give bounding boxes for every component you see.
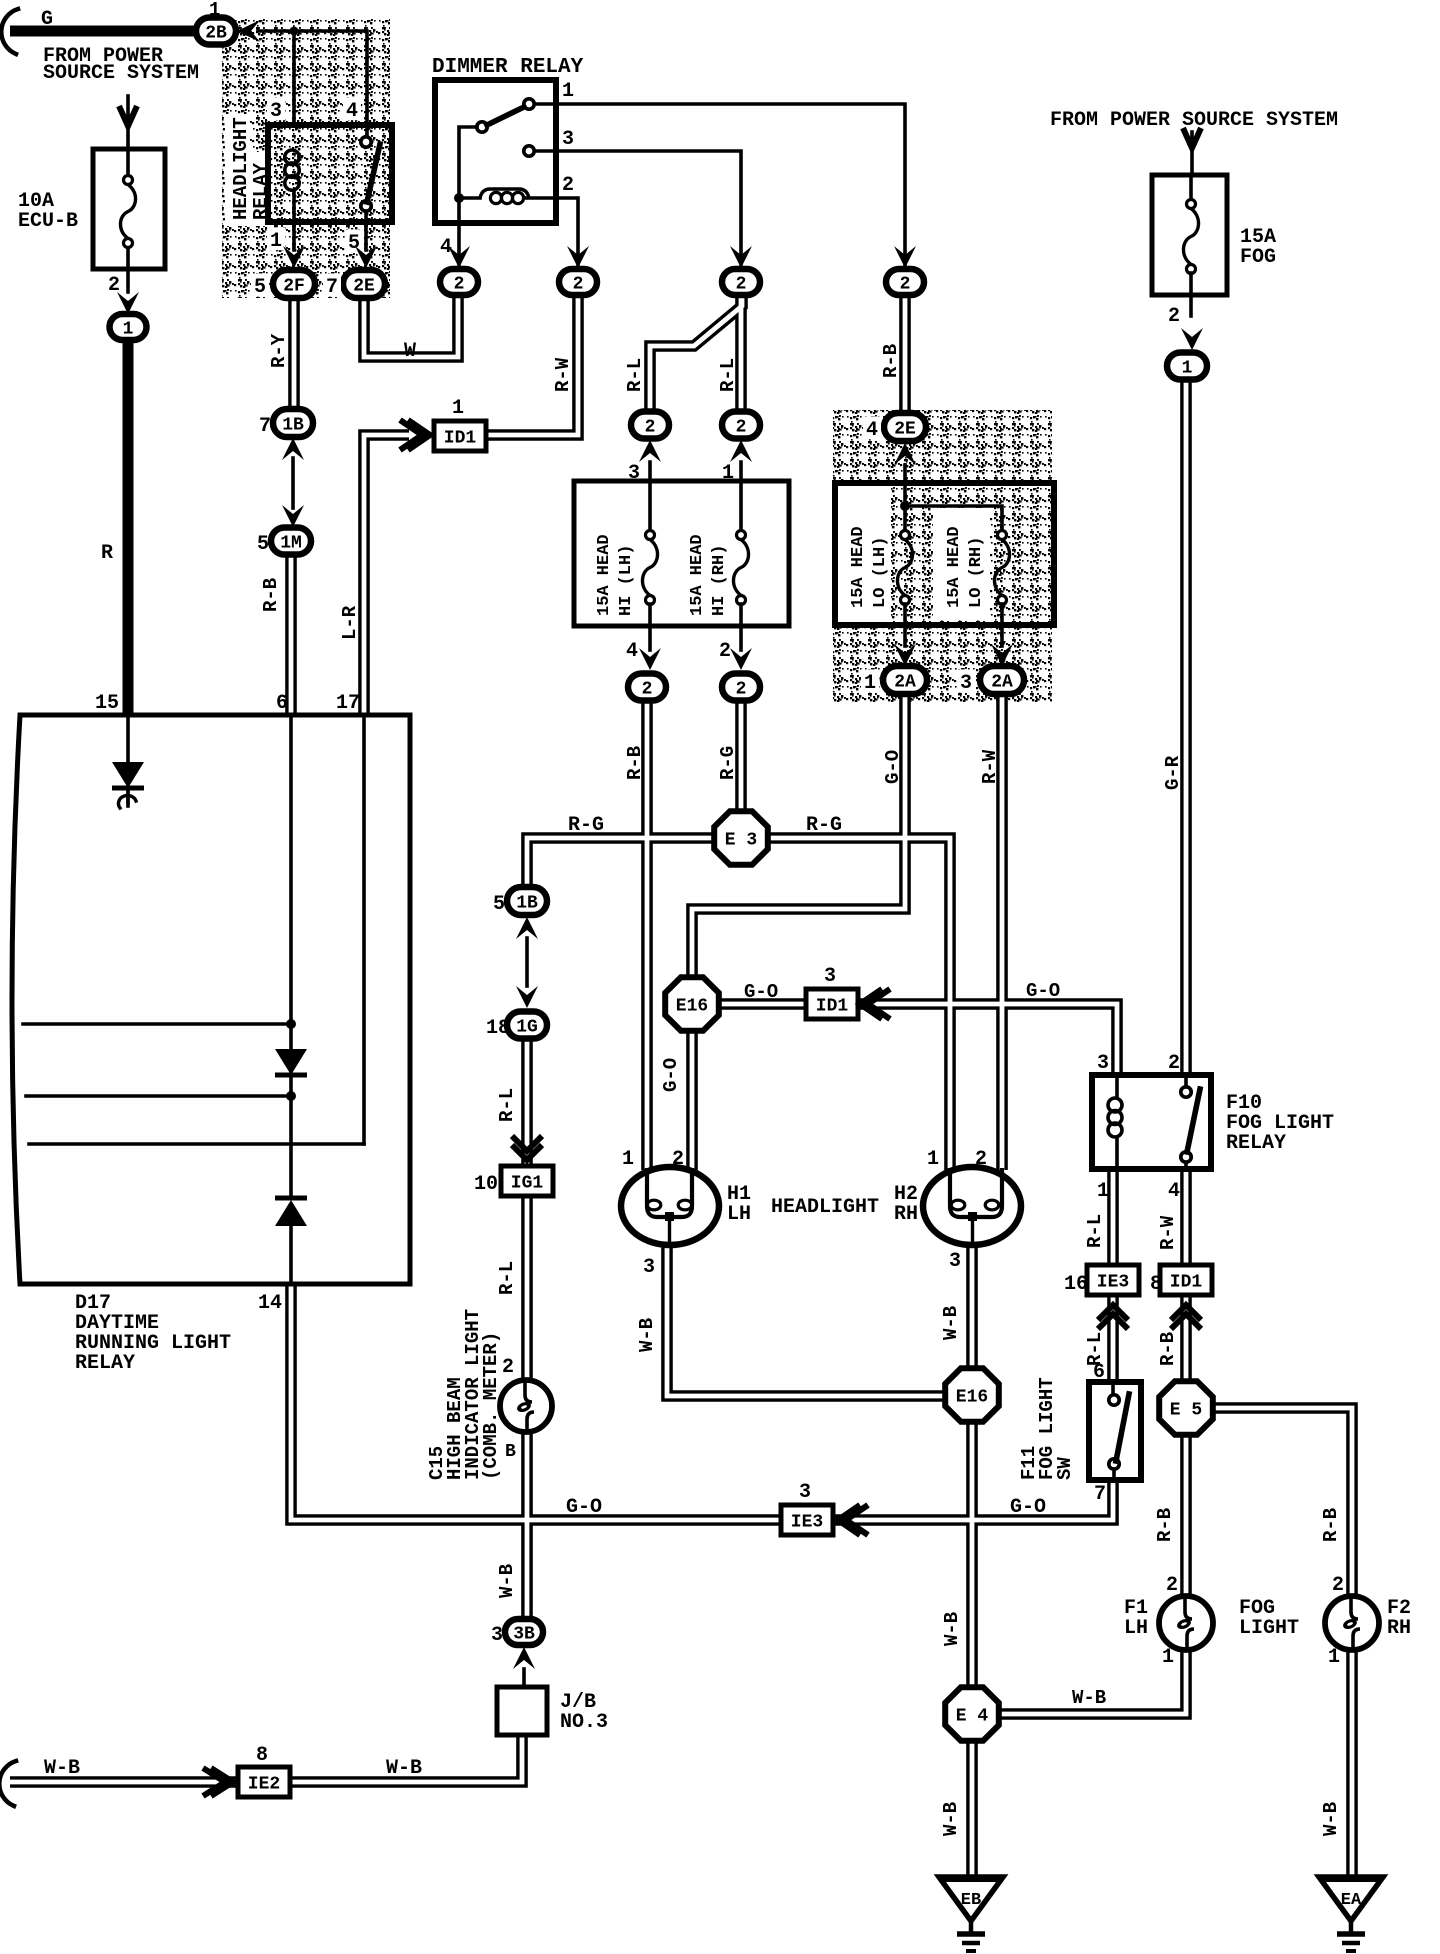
wire 1B to 1G [525,938,529,986]
label 1 at 2A LH [861,669,879,695]
fuse 10A ECU-B element [120,176,135,248]
svg-text:10: 10 [474,1173,498,1196]
wire G-O E16 to H1 pin2 [686,1029,698,1170]
svg-text:W-B: W-B [940,1802,962,1836]
lead into head hi RH fuse [739,462,743,531]
svg-text:W: W [404,340,416,363]
arrow into head hi LH conn [639,440,661,462]
svg-text:ID1: ID1 [816,996,849,1016]
svg-text:1: 1 [622,1148,634,1171]
FOG fuse bottom lead [1189,273,1193,316]
switch F11 fog light switch box [1089,1382,1141,1480]
junction E3 [714,811,768,865]
headlight relay switch blade [367,144,380,202]
arrow into conn 2 (dimmer pin4) [448,246,470,268]
svg-text:3: 3 [1097,1052,1109,1075]
svg-text:18: 18 [486,1017,510,1040]
arrow chevrons into ID1 #1 [400,420,430,450]
svg-text:2: 2 [900,274,911,294]
dimmer pin1 wire to conn [534,104,905,268]
svg-text:5: 5 [254,276,266,299]
arrow into 2A RH [991,644,1013,666]
connector 1 (FOG) [1167,353,1207,380]
junction ID1 #2 [806,989,858,1019]
svg-text:3: 3 [824,965,836,988]
svg-text:EB: EB [961,1891,981,1910]
svg-text:E 5: E 5 [1170,1400,1202,1420]
svg-text:R-L: R-L [496,1261,518,1295]
svg-text:(COMB. METER): (COMB. METER) [480,1332,502,1480]
relay D17 daytime running light relay box [12,715,410,1284]
dimmer contact pin1 [524,99,534,109]
svg-text:15: 15 [95,692,119,715]
svg-text:2A: 2A [894,672,916,692]
svg-text:1B: 1B [282,415,304,435]
coil F10 relay [1108,1098,1122,1137]
junction ID1 #3 [1160,1265,1212,1295]
svg-text:LO (RH): LO (RH) [967,537,986,608]
connector 2 head hi RH top [722,412,760,439]
svg-text:R-B: R-B [624,746,646,780]
diode D17 internal #1 [112,762,144,788]
svg-text:14: 14 [258,1292,282,1315]
wire W-B left feed to IE2 and J/B No.3 [10,1735,522,1782]
arrow chevrons into IE3 #1 [1098,1305,1128,1329]
arrow into conn 2 (dimmer pin1) [894,246,916,268]
fuse ECU-B bottom lead [126,248,130,292]
svg-text:ID1: ID1 [444,428,477,448]
svg-text:5: 5 [257,533,269,556]
label 5 at 2F [251,273,269,299]
wire R-Y 2F to 1B [288,298,300,409]
D17 internal curl [118,790,136,808]
fuse 15A FOG box [1152,175,1227,295]
arrow into conn 1 [117,292,139,314]
svg-text:R-B: R-B [1320,1508,1342,1542]
arrow into conn 2 below LH fuse [639,648,661,670]
wire R thick feed to D17 pin 15 [123,340,134,715]
dimmer pin2 wire to conn [524,198,578,268]
lamp F2 fog RH [1325,1596,1379,1650]
svg-text:8: 8 [1150,1273,1162,1296]
wire G-O ID1 to F10 pin3 [859,1004,1117,1075]
svg-text:R-W: R-W [552,357,574,392]
svg-text:7: 7 [259,415,271,438]
F11 contact top [1109,1395,1119,1405]
junction E16 #1 [665,977,719,1031]
svg-text:DIMMER RELAY: DIMMER RELAY [432,56,584,79]
wire R-B ID1 to E5 [1180,1294,1192,1383]
wire G power feed bus [10,26,216,37]
label 4 at 2E [863,416,881,442]
svg-text:4: 4 [626,640,638,663]
wire R-W dimmer pin2 to ID1 [485,296,578,435]
dimmer internal junction [454,193,464,203]
connector 2 head hi LH bottom [628,674,666,701]
connector 2 head hi LH top [631,412,669,439]
svg-text:2: 2 [454,274,465,294]
wire R-B E5 to F1 pin2 [1180,1434,1192,1597]
connector 1 (ECU-B) [110,314,147,340]
wire W-B C15 bulb to 3B [521,1431,533,1620]
head lo LH fuse top lead [903,506,907,531]
svg-text:3: 3 [960,672,972,695]
D17 pin17 internal lead [362,715,366,1144]
label pin5 headlight relay [345,229,363,255]
junction E4 [945,1687,999,1741]
junction head lo feed [900,501,910,511]
svg-text:4: 4 [866,419,878,442]
svg-text:W-B: W-B [44,1757,80,1780]
headlight relay contact top [361,137,371,147]
white wire cores [10,296,1352,1877]
svg-text:2: 2 [736,274,747,294]
svg-text:2E: 2E [353,276,375,296]
svg-text:2: 2 [502,1356,514,1379]
svg-text:HI (RH): HI (RH) [710,545,729,616]
svg-text:15A HEAD: 15A HEAD [595,534,614,616]
wire R-L IG1 to C15 bulb [521,1195,533,1382]
svg-text:ID1: ID1 [1170,1272,1203,1292]
dimmer switch blade [487,107,524,125]
wire W-B H1 pin3 to E16 [667,1244,947,1396]
arrow open into ECU-B fuse [119,106,137,126]
svg-text:G-O: G-O [566,1496,602,1519]
svg-text:IE3: IE3 [1097,1272,1129,1292]
junction IE3 #2 [781,1505,833,1535]
wire R-L dimmer pin3 conn to head hi LH conn [650,297,742,412]
fuse box 15A HEAD HI [574,481,789,626]
svg-text:4: 4 [1168,1180,1180,1203]
wire G-R fog fuse to F10 pin2 [1180,380,1192,1075]
connector 2A RH [980,666,1024,694]
wire G-O IE3 to F11 pin7 [832,1480,1113,1520]
svg-text:2: 2 [645,417,656,437]
svg-text:R-W: R-W [1157,1215,1179,1250]
wire R-B E5 to F2 pin2 [1211,1408,1352,1597]
arrow chevrons into ID1 #2 [860,989,890,1019]
arrow chevrons into ID1 #3 [1171,1305,1201,1329]
fuse box 15A HEAD LO [835,483,1054,625]
svg-text:E 4: E 4 [956,1706,989,1726]
svg-text:1: 1 [123,319,134,339]
headlamp H1 LH [621,1167,719,1245]
FOG fuse top lead [1189,175,1193,200]
F10 coil leads [1115,1075,1119,1169]
svg-text:R-L: R-L [1084,1214,1106,1248]
wire 2B to headlight relay pins [258,31,367,137]
svg-text:W-B: W-B [636,1318,658,1352]
wire stub curl bottom-left [0,1761,16,1806]
headlight relay pin5 lead [364,211,368,250]
F10 pin2 lead [1184,1075,1188,1169]
D17 internal hline c [29,1142,364,1146]
junction E5 [1159,1381,1213,1435]
label 3 at 2A RH [957,669,975,695]
connector 2 dimmer pin4 [440,269,478,295]
svg-text:2: 2 [736,679,747,699]
svg-text:3: 3 [562,128,574,151]
svg-text:1: 1 [1182,358,1193,378]
svg-text:R-G: R-G [717,746,739,780]
connector 2 dimmer pin2 [559,269,597,295]
svg-text:G-O: G-O [882,750,904,784]
wire L-R D17 pin17 to ID1 [364,435,409,715]
svg-text:LH: LH [727,1203,751,1226]
headlight relay coil bottom lead [292,192,296,250]
svg-text:LH: LH [1124,1617,1148,1640]
label pin3 headlight relay [267,97,285,123]
F11 pin6 lead [1111,1382,1115,1394]
wire G-O 2A LH to E16 [692,694,905,980]
svg-text:W-B: W-B [386,1757,422,1780]
D17 internal junction b [286,1091,296,1101]
F11 switch blade [1116,1394,1129,1461]
wire W-B E4 to ground EB [966,1740,978,1877]
wire W-B E16 to E4 [966,1420,978,1688]
ground EA [1319,1877,1383,1951]
wire stub curl top-left [1,9,18,54]
junction E16 #2 [945,1368,999,1422]
arrow into 2F [283,246,305,268]
wire R-G E3 left to 1B [527,838,715,888]
F10 contact top [1181,1087,1191,1097]
connector 2E (headlight relay) [343,270,385,298]
svg-text:R-L: R-L [624,358,646,392]
svg-text:4: 4 [440,236,452,259]
label plate 15A HEAD LO (RH) [933,508,990,620]
lead into head lo box [903,465,907,505]
D17 internal junction a [286,1019,296,1029]
svg-text:ECU-B: ECU-B [18,210,78,233]
fuse 15A HEAD LO (LH) element [897,531,912,605]
arrow into 1G [516,986,538,1008]
svg-text:R-B: R-B [1157,1332,1179,1366]
arrow open into FOG fuse [1183,128,1201,148]
svg-text:R-Y: R-Y [268,333,290,368]
connector 2E (head lo) [884,413,926,441]
lamp F1 fog LH [1159,1596,1213,1650]
svg-text:G-O: G-O [660,1058,682,1092]
arrow into 2E head lo [894,443,916,465]
svg-text:RELAY: RELAY [1226,1132,1286,1155]
arrow out of 1B [282,438,304,460]
relay F10 fog light relay box [1092,1075,1211,1169]
arrow into head hi RH conn [730,440,752,462]
dimmer pin3 wire to conn [534,151,741,268]
wire R-L dimmer pin3 conn straight down [735,296,747,412]
wire W-B H2 pin3 to E16 [966,1244,978,1371]
svg-text:W-B: W-B [941,1612,963,1646]
fuse 15A FOG element [1183,200,1198,274]
lead out head lo RH fuse [1000,604,1004,646]
svg-text:3: 3 [949,1250,961,1273]
wire R-L F10 pin1 to IE3 [1107,1169,1119,1266]
svg-text:1: 1 [1162,1646,1174,1669]
svg-text:R: R [101,542,113,565]
wire R-B dimmer pin1 conn to 2E [899,296,911,414]
svg-text:2: 2 [672,1148,684,1171]
lamp C15 high beam indicator [500,1380,552,1432]
coil headlight relay [285,150,299,190]
dimmer contact pin3 [524,146,534,156]
wire 1B to 1M [291,458,295,508]
svg-text:1M: 1M [280,533,302,553]
svg-text:W-B: W-B [1320,1802,1342,1836]
dimmer blade to coil [459,127,477,193]
svg-text:IE2: IE2 [248,1774,280,1794]
svg-text:2: 2 [573,274,584,294]
ground EB [939,1877,1003,1951]
svg-text:HI (LH): HI (LH) [617,545,636,616]
svg-text:3: 3 [491,1624,503,1647]
label pin1 headlight relay [267,227,285,253]
diode D17 internal #3 [275,1198,307,1226]
dimmer coil left lead [459,196,480,200]
label plate HEADLIGHT RELAY [225,114,250,226]
svg-text:E16: E16 [956,1387,988,1407]
relay headlight relay box [268,125,392,222]
svg-text:1: 1 [452,397,464,420]
D17 pin6 internal lead [289,715,293,1049]
svg-text:HEADLIGHT: HEADLIGHT [230,117,252,220]
head lo internal feed [905,506,1002,530]
D17 pin15 internal lead [126,715,130,762]
wire R-B 1M to D17 pin 6 [285,555,297,715]
wire R-G head hi RH fuse to E3 [735,701,747,812]
svg-text:IE3: IE3 [791,1512,823,1532]
arrow into conn 2 (dimmer pin3) [730,246,752,268]
lead out head lo LH fuse [903,604,907,646]
svg-text:R-B: R-B [260,578,282,612]
svg-text:7: 7 [326,276,338,299]
svg-text:RH: RH [1387,1617,1411,1640]
svg-text:2: 2 [562,174,574,197]
F10 contact bottom [1181,1152,1191,1162]
svg-text:2: 2 [1168,305,1180,328]
fuse 15A HEAD HI (LH) element [642,531,657,605]
svg-text:15A HEAD: 15A HEAD [688,534,707,616]
svg-text:3: 3 [270,100,282,123]
svg-text:SW: SW [1054,1457,1076,1480]
wire into ECU-B fuse [126,96,130,150]
D17 pin6 lead cont [289,1077,293,1198]
svg-text:W-B: W-B [1072,1687,1106,1709]
arrow chevrons into IE2 [203,1768,233,1796]
relay dimmer relay box [435,80,556,223]
junction on 2B wire [290,27,299,36]
junction ID1 #1 [434,421,486,451]
svg-text:2: 2 [1332,1574,1344,1597]
arrow into 2B [237,20,260,42]
coil dimmer relay [480,189,529,204]
svg-text:R-W: R-W [979,749,1001,784]
arrow chevrons into IE3 #2 [838,1505,868,1535]
arrow into 2E [355,246,377,268]
svg-text:R-G: R-G [806,814,842,837]
svg-text:LIGHT: LIGHT [1239,1617,1299,1640]
D17 internal hline a [23,1022,291,1026]
junction IG1 [501,1166,553,1196]
svg-text:2: 2 [719,640,731,663]
connector 1B (R-G) [507,887,547,915]
svg-text:2: 2 [1166,1574,1178,1597]
svg-text:15A HEAD: 15A HEAD [945,526,964,608]
svg-text:RH: RH [894,1203,918,1226]
svg-text:17: 17 [336,692,360,715]
connector 1B (R-Y) [273,409,313,437]
wire W-B F2 pin1 to ground EA [1346,1650,1358,1877]
arrow into 2A LH [894,644,916,666]
wire into FOG fuse [1190,132,1194,175]
svg-text:1: 1 [562,80,574,103]
svg-text:2A: 2A [991,672,1013,692]
wire G-O D17 pin14 to F11 pin7 run [291,1286,783,1520]
svg-text:G-O: G-O [1026,980,1060,1002]
lead into head hi LH fuse [648,462,652,531]
svg-text:2E: 2E [894,419,916,439]
dimmer pin4 wire to conn [457,203,461,268]
stipple zone head-lo fuses [833,410,1052,702]
svg-text:2: 2 [975,1148,987,1171]
headlight relay contact bottom [361,201,371,211]
D17 lead to pin14 [289,1226,293,1284]
svg-text:FOG: FOG [1240,246,1276,269]
svg-text:1B: 1B [516,893,538,913]
connector 1M [271,528,311,555]
arrow into 3B [513,1647,535,1669]
svg-text:G: G [41,8,53,31]
label plate 15A HEAD LO (LH) [837,487,891,623]
svg-text:8: 8 [256,1744,268,1767]
svg-text:G-O: G-O [1010,1496,1046,1519]
connector 2 dimmer pin3 [722,269,760,295]
svg-text:R-B: R-B [880,344,902,378]
fuse 15A HEAD HI (RH) element [733,531,748,605]
svg-text:G-R: G-R [1162,755,1184,790]
junction block J/B No.3 [497,1687,547,1735]
svg-text:2: 2 [1168,1052,1180,1075]
svg-text:LO (LH): LO (LH) [871,537,890,608]
connector 2B [196,18,236,45]
connector 2F [273,270,315,298]
svg-text:2B: 2B [205,23,227,43]
wire G-O E16 to ID1 [718,998,807,1010]
wire R-W F10 pin4 to ID1 [1180,1169,1192,1266]
svg-text:R-L: R-L [496,1088,518,1122]
svg-text:1: 1 [1328,1646,1340,1669]
wire W loop 2E to dimmer pin4 connector [364,296,458,357]
F11 contact bottom [1109,1459,1119,1469]
F11 pin7 lead [1112,1469,1116,1480]
connector 1G [507,1012,547,1039]
label pin4 headlight relay [343,97,361,123]
svg-text:R-L: R-L [717,358,739,392]
svg-text:B: B [505,1442,516,1462]
svg-text:3: 3 [799,1481,811,1504]
arrow into conn 1 fog [1181,328,1203,350]
svg-text:1G: 1G [516,1017,538,1037]
D17 internal hline b [26,1094,291,1098]
svg-text:1: 1 [864,672,876,695]
svg-text:15A HEAD: 15A HEAD [849,526,868,608]
connector 2 head hi RH bottom [722,674,760,701]
svg-text:L-R: L-R [339,605,361,640]
svg-text:16: 16 [1064,1273,1088,1296]
wire R-L 1G to IG1 [521,1039,533,1167]
svg-text:5: 5 [493,893,505,916]
junction IE3 #1 [1087,1265,1139,1295]
